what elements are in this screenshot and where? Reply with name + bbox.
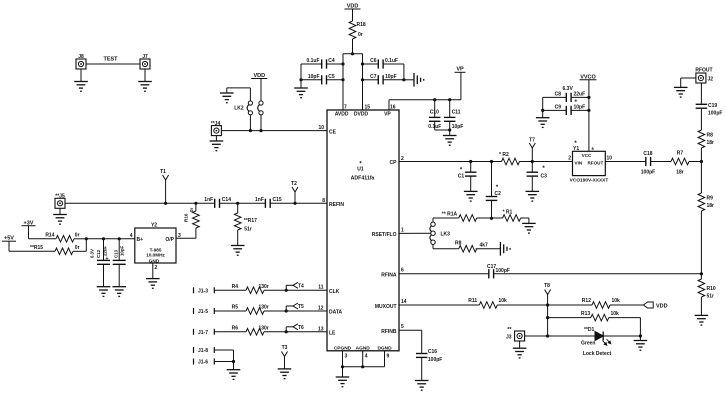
- svg-text:C10: C10: [430, 110, 439, 116]
- svg-text:10pF: 10pF: [308, 74, 320, 80]
- wire: [547, 305, 549, 336]
- svg-text:100pF: 100pF: [428, 357, 442, 363]
- svg-text:R8: R8: [455, 240, 462, 246]
- junction: [293, 202, 296, 205]
- svg-text:C2: C2: [495, 191, 502, 197]
- resistor R10 51r: [698, 274, 716, 316]
- junction: [433, 98, 451, 101]
- capacitor C8 22uF 6.3V: [543, 86, 589, 104]
- svg-text:9: 9: [387, 354, 390, 360]
- svg-text:** R1A: ** R1A: [442, 211, 458, 217]
- pin 2 GND: [149, 258, 160, 271]
- connector J1-7: [194, 329, 215, 336]
- svg-text:Lock Detect: Lock Detect: [583, 351, 612, 357]
- wire: [250, 115, 261, 131]
- svg-text:**R17: **R17: [244, 218, 257, 224]
- ground: [500, 242, 510, 256]
- wire: [681, 78, 696, 87]
- power net +5V: [2, 236, 16, 252]
- junction: [194, 202, 197, 205]
- wire: [689, 161, 701, 163]
- svg-text:8: 8: [322, 198, 325, 204]
- pin 5 RFINB: [381, 324, 404, 335]
- junction: [285, 309, 288, 312]
- svg-text:11: 11: [318, 285, 324, 291]
- pin 12 DATA: [318, 305, 343, 315]
- svg-text:J7: J7: [142, 54, 148, 60]
- svg-text:**J4: **J4: [211, 121, 221, 127]
- svg-text:CLK: CLK: [329, 289, 340, 295]
- ground: [526, 191, 540, 201]
- svg-text:10: 10: [318, 125, 324, 131]
- svg-text:22uF: 22uF: [574, 92, 586, 98]
- svg-text:CPGND: CPGND: [334, 345, 352, 351]
- svg-text:6.3V: 6.3V: [90, 249, 95, 258]
- svg-text:0.1uF: 0.1uF: [385, 58, 398, 64]
- connector J1-6: [194, 359, 215, 366]
- svg-text:14: 14: [401, 299, 407, 305]
- svg-text:7: 7: [344, 105, 347, 111]
- svg-text:* R2: * R2: [499, 152, 509, 158]
- svg-text:T4: T4: [298, 284, 304, 290]
- junction: [700, 160, 703, 163]
- junction: [236, 202, 239, 205]
- svg-text:C15: C15: [273, 197, 282, 203]
- svg-text:Green: Green: [581, 341, 595, 347]
- ground: [443, 136, 457, 146]
- resistor R2: [492, 152, 533, 165]
- wire: [86, 239, 135, 252]
- ground: [634, 336, 648, 350]
- pin 8: [322, 198, 325, 204]
- LED D1 Green: [581, 327, 612, 357]
- wire: [227, 88, 251, 101]
- wire: [605, 161, 646, 163]
- svg-text:T3: T3: [282, 345, 288, 351]
- svg-text:0r: 0r: [358, 32, 363, 38]
- wire AVDD branch: [343, 54, 363, 110]
- wire: [433, 244, 459, 249]
- testpoint T6: [286, 324, 304, 332]
- junction: [490, 160, 493, 163]
- svg-text:51r: 51r: [244, 227, 252, 233]
- testpoint T2: [291, 181, 298, 203]
- wire RFINA net: [399, 273, 489, 275]
- svg-text:R6: R6: [232, 326, 239, 332]
- svg-text:J8: J8: [78, 54, 84, 60]
- wire: [476, 248, 501, 250]
- wire R4 input: [214, 289, 246, 291]
- wire: [497, 304, 547, 306]
- svg-text:T5: T5: [298, 304, 304, 310]
- svg-text:C4: C4: [328, 58, 335, 64]
- svg-text:DVDD: DVDD: [354, 112, 369, 118]
- connector J1-3: [194, 287, 215, 294]
- svg-text:5: 5: [401, 324, 404, 330]
- ground: [513, 341, 527, 358]
- capacitor C3: [527, 162, 548, 192]
- ground: [414, 73, 424, 87]
- junction: [102, 237, 121, 240]
- svg-text:10pF: 10pF: [120, 245, 125, 256]
- wire VP: [389, 100, 461, 110]
- pin 10 CE: [318, 125, 336, 136]
- pin 3 CPGND: [334, 345, 352, 359]
- svg-text:1nF: 1nF: [204, 197, 213, 203]
- svg-text:6: 6: [401, 268, 404, 274]
- capacitor C18 100pF: [641, 151, 655, 176]
- junction: [232, 360, 235, 363]
- svg-text:10: 10: [607, 156, 613, 162]
- capacitor C19 100pF: [696, 83, 723, 117]
- wire: [299, 64, 302, 88]
- svg-text:VIN: VIN: [575, 160, 583, 165]
- capacitor C17 100pF: [487, 264, 510, 279]
- svg-text:GND: GND: [149, 258, 160, 264]
- svg-text:RFINA: RFINA: [381, 272, 397, 278]
- svg-text:R10: R10: [707, 286, 716, 292]
- svg-text:R18: R18: [357, 22, 366, 28]
- svg-text:Y1: Y1: [573, 146, 579, 152]
- ground: [231, 246, 245, 256]
- wire: [264, 331, 327, 333]
- junction: [546, 334, 549, 337]
- wire: [471, 161, 492, 163]
- pin 6 RFINA: [381, 268, 404, 279]
- svg-text:J1-3: J1-3: [198, 288, 208, 294]
- capacitor C4 0.1uF: [301, 58, 343, 69]
- capacitor C1: [458, 162, 477, 192]
- svg-text:**D1: **D1: [584, 327, 595, 333]
- svg-text:16: 16: [390, 105, 396, 111]
- resistor R13 10k: [548, 311, 641, 321]
- svg-text:10k: 10k: [499, 298, 508, 304]
- testpoint T7: [529, 138, 535, 162]
- svg-text:R11: R11: [468, 298, 477, 304]
- svg-text:TEST: TEST: [103, 57, 118, 63]
- svg-text:C8: C8: [555, 92, 562, 98]
- svg-text:C19: C19: [708, 103, 717, 109]
- svg-text:C9: C9: [555, 105, 562, 111]
- svg-text:0r: 0r: [75, 233, 80, 239]
- junction: [587, 96, 590, 112]
- wire: [532, 161, 572, 163]
- ground: [522, 223, 536, 233]
- wire: [264, 289, 327, 291]
- pin 9 DGND: [377, 345, 392, 359]
- svg-text:3: 3: [178, 233, 181, 239]
- svg-text:2: 2: [155, 265, 158, 271]
- resistor R8 18r: [698, 109, 714, 162]
- svg-text:18r: 18r: [707, 140, 715, 146]
- svg-text:51r: 51r: [707, 294, 715, 300]
- capacitor C2: [486, 162, 501, 219]
- capacitor C14 1nF: [204, 197, 231, 208]
- svg-text:+: +: [106, 256, 109, 262]
- ground: [336, 377, 350, 387]
- svg-text:C1: C1: [458, 174, 465, 180]
- svg-text:4: 4: [130, 233, 133, 239]
- svg-text:130r: 130r: [259, 305, 269, 311]
- wire: [494, 273, 702, 275]
- svg-text:VP: VP: [456, 67, 464, 73]
- svg-text:Y2: Y2: [151, 223, 157, 229]
- testpoint T5: [286, 303, 304, 311]
- resistor R8 4k7: [455, 240, 488, 252]
- pin 13 LE: [318, 326, 336, 336]
- connector J8: [76, 54, 86, 69]
- ground: [415, 381, 429, 391]
- wire: [176, 237, 196, 239]
- svg-text:LK2: LK2: [234, 106, 244, 112]
- ground: [278, 369, 292, 379]
- svg-text:R5: R5: [232, 305, 239, 311]
- junction: [546, 303, 549, 306]
- resistor R11 10k: [468, 298, 507, 308]
- svg-text:10.0MHz: 10.0MHz: [146, 252, 165, 257]
- power flag VDD: [643, 302, 667, 309]
- junction: [351, 52, 354, 55]
- svg-text:4k7: 4k7: [480, 243, 489, 249]
- ground: [294, 88, 308, 98]
- svg-text:R8: R8: [707, 133, 714, 139]
- svg-text:DATA: DATA: [329, 310, 343, 316]
- svg-text:100pF: 100pF: [641, 170, 655, 176]
- svg-text:VCC: VCC: [582, 153, 592, 158]
- resistor R16 0r: [184, 203, 200, 238]
- ground: [227, 370, 241, 380]
- ground: [53, 208, 67, 224]
- wire DVDD branch: [362, 54, 364, 110]
- svg-text:C5: C5: [328, 74, 335, 80]
- svg-text:* R1: * R1: [503, 209, 513, 215]
- svg-text:1nF: 1nF: [255, 197, 264, 203]
- svg-text:R4: R4: [232, 284, 239, 290]
- svg-text:R13: R13: [581, 311, 590, 317]
- wire CE net: [221, 130, 327, 132]
- testpoint T4: [286, 282, 304, 290]
- svg-text:2: 2: [568, 156, 571, 162]
- wire: [342, 367, 344, 377]
- svg-text:MUXOUT: MUXOUT: [375, 304, 397, 310]
- svg-text:100pF: 100pF: [496, 268, 510, 274]
- ground: [674, 87, 688, 97]
- pin 1 RSET/FLO: [372, 228, 404, 239]
- svg-text:4: 4: [365, 354, 368, 360]
- power net VP: [455, 67, 466, 100]
- resistor R17 51r: [234, 203, 257, 245]
- wire: [233, 362, 235, 370]
- wire: [264, 310, 327, 312]
- svg-text:VCO190V-XXXXT: VCO190V-XXXXT: [570, 178, 609, 184]
- resistor R4 130r: [232, 284, 269, 294]
- power net +3V: [22, 220, 36, 239]
- wire: [639, 318, 641, 336]
- svg-text:AGND: AGND: [356, 345, 371, 351]
- svg-text:VP: VP: [384, 112, 391, 118]
- oscillator Y2 TCXO: [135, 223, 176, 263]
- svg-text:130r: 130r: [259, 284, 269, 290]
- svg-text:15: 15: [365, 105, 371, 111]
- svg-text:DGND: DGND: [377, 345, 392, 351]
- svg-text:CP: CP: [390, 160, 398, 166]
- junction: [85, 237, 88, 240]
- wire: [402, 64, 414, 81]
- connector J1-5: [194, 308, 215, 315]
- ground: [74, 69, 88, 91]
- pin 4 AGND: [356, 345, 371, 359]
- svg-text:O/P: O/P: [165, 237, 174, 243]
- svg-text:T7: T7: [529, 138, 535, 144]
- pin 2 CP: [390, 156, 404, 166]
- wire: [603, 335, 640, 337]
- junction: [639, 334, 642, 337]
- capacitor C12 22uF 6.3V: [90, 239, 111, 287]
- svg-text:R14: R14: [45, 233, 54, 239]
- capacitor C6 0.1uF: [363, 58, 404, 69]
- pin 10 RFOUT: [607, 156, 613, 162]
- svg-text:C11: C11: [452, 110, 461, 116]
- svg-text:T8: T8: [544, 283, 550, 289]
- svg-text:RSET/FLO: RSET/FLO: [372, 232, 397, 238]
- svg-text:REFIN: REFIN: [329, 202, 344, 208]
- svg-text:RFINB: RFINB: [381, 329, 397, 335]
- svg-text:+: +: [574, 98, 577, 104]
- svg-text:18r: 18r: [676, 170, 684, 176]
- pin 2 VIN: [568, 156, 571, 162]
- svg-text:U1: U1: [357, 167, 364, 173]
- svg-text:R16: R16: [184, 213, 189, 222]
- svg-text:10pF: 10pF: [574, 105, 586, 111]
- testpoint T3: [282, 345, 288, 369]
- wire RSET net: [399, 232, 431, 234]
- wire: [214, 361, 233, 363]
- pin 14 MUXOUT: [375, 299, 407, 310]
- svg-text:RFOUT: RFOUT: [695, 67, 712, 73]
- svg-text:R9: R9: [707, 196, 714, 202]
- ground: [138, 69, 152, 91]
- wire: [477, 217, 492, 219]
- power net VDD: [251, 73, 267, 101]
- junction: [285, 330, 288, 333]
- svg-text:10k: 10k: [611, 311, 620, 317]
- svg-text:J1-5: J1-5: [198, 309, 208, 315]
- wire RFINB net: [399, 330, 422, 353]
- svg-text:J1-8: J1-8: [198, 348, 208, 354]
- wire: [214, 350, 233, 362]
- power net VDD: [345, 4, 361, 22]
- jumper LK2: [234, 101, 263, 115]
- svg-text:**J5: **J5: [55, 194, 65, 200]
- resistor R18 0r: [349, 21, 366, 54]
- capacitor C10 0.1uF: [428, 100, 441, 130]
- svg-text:18r: 18r: [707, 203, 715, 209]
- junction: [700, 272, 703, 275]
- ground: [97, 287, 111, 297]
- svg-text:0r: 0r: [189, 207, 194, 212]
- junction: [341, 62, 344, 81]
- testpoint T1: [160, 169, 169, 203]
- svg-text:C3: C3: [541, 174, 548, 180]
- svg-text:VDD: VDD: [656, 303, 668, 309]
- wire: [435, 128, 452, 135]
- junction: [249, 129, 263, 132]
- svg-text:RFOUT: RFOUT: [587, 160, 603, 165]
- power net VVCO: [580, 74, 597, 151]
- connector J5: [55, 194, 65, 209]
- capacitor C9 10pF: [543, 105, 589, 116]
- ground: [146, 279, 160, 289]
- svg-text:**R15: **R15: [30, 245, 43, 251]
- wire: [152, 263, 154, 279]
- capacitor C16 100pF: [416, 349, 442, 381]
- pin 16 VP: [384, 105, 396, 118]
- svg-text:1: 1: [401, 228, 404, 234]
- pin 3 O/P: [165, 233, 181, 243]
- svg-text:R12: R12: [582, 298, 591, 304]
- ground: [536, 118, 550, 128]
- wire REFIN net: [65, 202, 215, 204]
- svg-text:LK3: LK3: [441, 231, 451, 237]
- svg-text:10k: 10k: [612, 298, 621, 304]
- wire TEST net: [86, 57, 140, 65]
- svg-text:22uF: 22uF: [103, 245, 108, 256]
- svg-text:J3: J3: [506, 335, 512, 341]
- resistor R1: [492, 209, 529, 223]
- svg-text:C14: C14: [222, 197, 231, 203]
- svg-text:C13: C13: [113, 249, 118, 258]
- junction: [341, 365, 364, 368]
- svg-text:T2: T2: [291, 181, 297, 187]
- svg-text:3: 3: [345, 354, 348, 360]
- resistor R6 130r: [232, 326, 269, 336]
- junction: [490, 217, 493, 220]
- resistor R12 10k: [548, 298, 644, 308]
- capacitor C15 1nF: [255, 197, 282, 208]
- pin 4 B+: [130, 233, 143, 243]
- junction: [361, 62, 364, 81]
- svg-text:CE: CE: [329, 129, 337, 135]
- svg-text:10pF: 10pF: [452, 124, 464, 130]
- wire: [433, 218, 459, 222]
- wire: [541, 97, 544, 117]
- connector J2: [695, 67, 713, 83]
- svg-text:B+: B+: [137, 237, 144, 243]
- resistor R5 130r: [232, 305, 269, 315]
- svg-text:10pF: 10pF: [385, 74, 397, 80]
- resistor R7 18r: [671, 151, 689, 176]
- svg-text:J2: J2: [708, 77, 714, 83]
- resistor R15 0r: [9, 245, 86, 255]
- connector J7: [140, 54, 150, 69]
- svg-text:LE: LE: [329, 330, 336, 336]
- resistor R9 18r: [698, 162, 714, 274]
- ground: [112, 287, 126, 297]
- junction: [164, 202, 167, 205]
- connector J1-8: [194, 347, 215, 354]
- svg-text:C7: C7: [370, 74, 377, 80]
- resistor R1A: [442, 211, 477, 221]
- svg-text:R7: R7: [677, 151, 684, 157]
- svg-text:AVDD: AVDD: [335, 112, 349, 118]
- pin 7 AVDD: [335, 105, 349, 118]
- junction: [285, 289, 288, 292]
- wire: [220, 202, 266, 204]
- svg-text:C6: C6: [370, 58, 377, 64]
- svg-text:0.1uF: 0.1uF: [306, 58, 319, 64]
- junction: [531, 160, 534, 163]
- svg-text:6.3V: 6.3V: [563, 86, 574, 92]
